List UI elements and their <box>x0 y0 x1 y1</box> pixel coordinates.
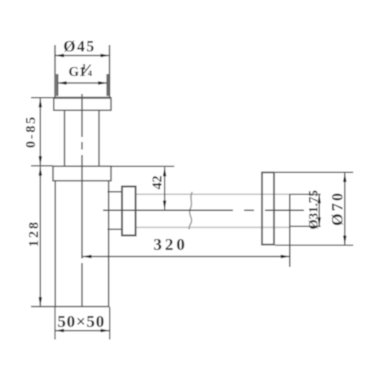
ext line mid (shared 0-85 / 128) <box>31 165 53 167</box>
svg-text:1: 1 <box>82 61 86 71</box>
ext lines Ø31.75 <box>290 193 321 195</box>
ext lines Ø70 <box>275 171 353 173</box>
riser tube left wall <box>64 110 66 166</box>
ext lines bottom (50x50) <box>54 307 56 340</box>
svg-text:0-85: 0-85 <box>24 115 39 148</box>
dimension line Ø31.75 <box>318 194 320 226</box>
body top flange <box>53 166 111 181</box>
pipe end line / ext for 320 and Ø31.75 <box>289 194 291 267</box>
outlet nut <box>122 187 136 236</box>
wall flange (escutcheon) <box>262 172 274 244</box>
svg-text:42: 42 <box>150 176 165 190</box>
top nut flange <box>54 98 111 111</box>
svg-text:Ø45: Ø45 <box>63 39 95 56</box>
svg-text:Ø70: Ø70 <box>330 191 347 226</box>
dimension line 42 <box>164 167 166 209</box>
vertical centerline of trap <box>81 94 83 307</box>
svg-text:128: 128 <box>27 220 42 247</box>
riser tube right wall <box>98 110 100 166</box>
dimension line 0-85 <box>39 98 41 165</box>
thread inner wall left <box>56 74 59 96</box>
top nut cup left wall (also ext line for Ø45) <box>54 45 56 98</box>
dimension line G1 1/4 <box>58 82 106 84</box>
trap body bottom edge + ext line for 128 <box>31 306 110 308</box>
svg-text:4: 4 <box>88 68 93 78</box>
dimension line 128 <box>39 167 41 307</box>
dimension line 320 <box>83 256 290 258</box>
trap body cup <box>54 181 56 307</box>
dimension line Ø70 <box>344 173 346 245</box>
thread inner wall right <box>106 74 109 96</box>
svg-text:Ø31.75: Ø31.75 <box>306 190 321 230</box>
top nut cup right wall <box>109 45 111 98</box>
svg-text:320: 320 <box>153 235 188 254</box>
pipe break symbol <box>189 192 192 230</box>
dimension line Ø45 <box>55 55 110 57</box>
label G1 1/4 <box>69 61 93 78</box>
dimension line 50x50 <box>55 330 110 332</box>
ext line for 42 (from body flange top) <box>111 165 174 167</box>
svg-text:50×50: 50×50 <box>57 312 105 331</box>
horizontal centerline of pipe <box>103 209 304 211</box>
outlet stub on body <box>108 191 123 193</box>
ext line top (0-85) <box>31 97 55 99</box>
pipe (horizontal tube, light outline) <box>136 194 290 227</box>
